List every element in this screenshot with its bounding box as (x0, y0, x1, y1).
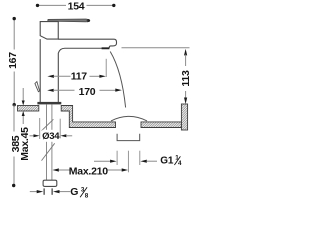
dimension Max.45 left (22, 88, 24, 124)
faucet base flange (37, 102, 61, 105)
faucet body sides (39, 39, 41, 102)
svg-text:117: 117 (71, 70, 88, 82)
pipe break slash lower (42, 143, 55, 160)
dimension 113 (184, 49, 187, 56)
spout tip reference line (122, 47, 190, 49)
svg-text:Max.45: Max.45 (19, 127, 31, 161)
aerator mark (102, 47, 110, 49)
pipe break slash upper (42, 119, 54, 130)
dimension 170 (47, 89, 54, 92)
G3/8 connector (43, 180, 57, 186)
svg-text:Ø34: Ø34 (42, 131, 60, 142)
svg-text:Max.210: Max.210 (69, 165, 109, 177)
dimension 385 left (13, 105, 15, 186)
dimension 154 top (38, 4, 114, 6)
drain control lever (35, 82, 40, 92)
svg-text:170: 170 (79, 86, 96, 98)
svg-text:113: 113 (180, 70, 192, 87)
faucet cartridge cap (40, 22, 58, 39)
countertop middle band with step (61, 106, 115, 128)
basin curve (110, 52, 125, 108)
svg-text:G: G (70, 186, 78, 198)
dimension Max.210 (52, 168, 59, 171)
right riser column (181, 104, 187, 130)
dimension 117 (47, 75, 54, 78)
countertop lower right band (141, 122, 181, 128)
dimension G1 1/4 (94, 160, 111, 162)
drain tailpiece bracket (117, 134, 140, 141)
dimension Ø34 (39, 118, 41, 139)
countertop left band (18, 106, 39, 112)
supply pipe (46, 104, 48, 180)
svg-text:G1: G1 (160, 156, 174, 167)
svg-text:154: 154 (68, 0, 85, 12)
faucet lever handle (48, 19, 87, 22)
faucet spout (58, 39, 116, 53)
dimension G 3/8 bottom (30, 191, 37, 193)
svg-text:167: 167 (7, 52, 19, 69)
drain extension lines (116, 151, 118, 165)
dimension 167 left (13, 19, 15, 105)
pop-up waste dome (111, 116, 147, 121)
